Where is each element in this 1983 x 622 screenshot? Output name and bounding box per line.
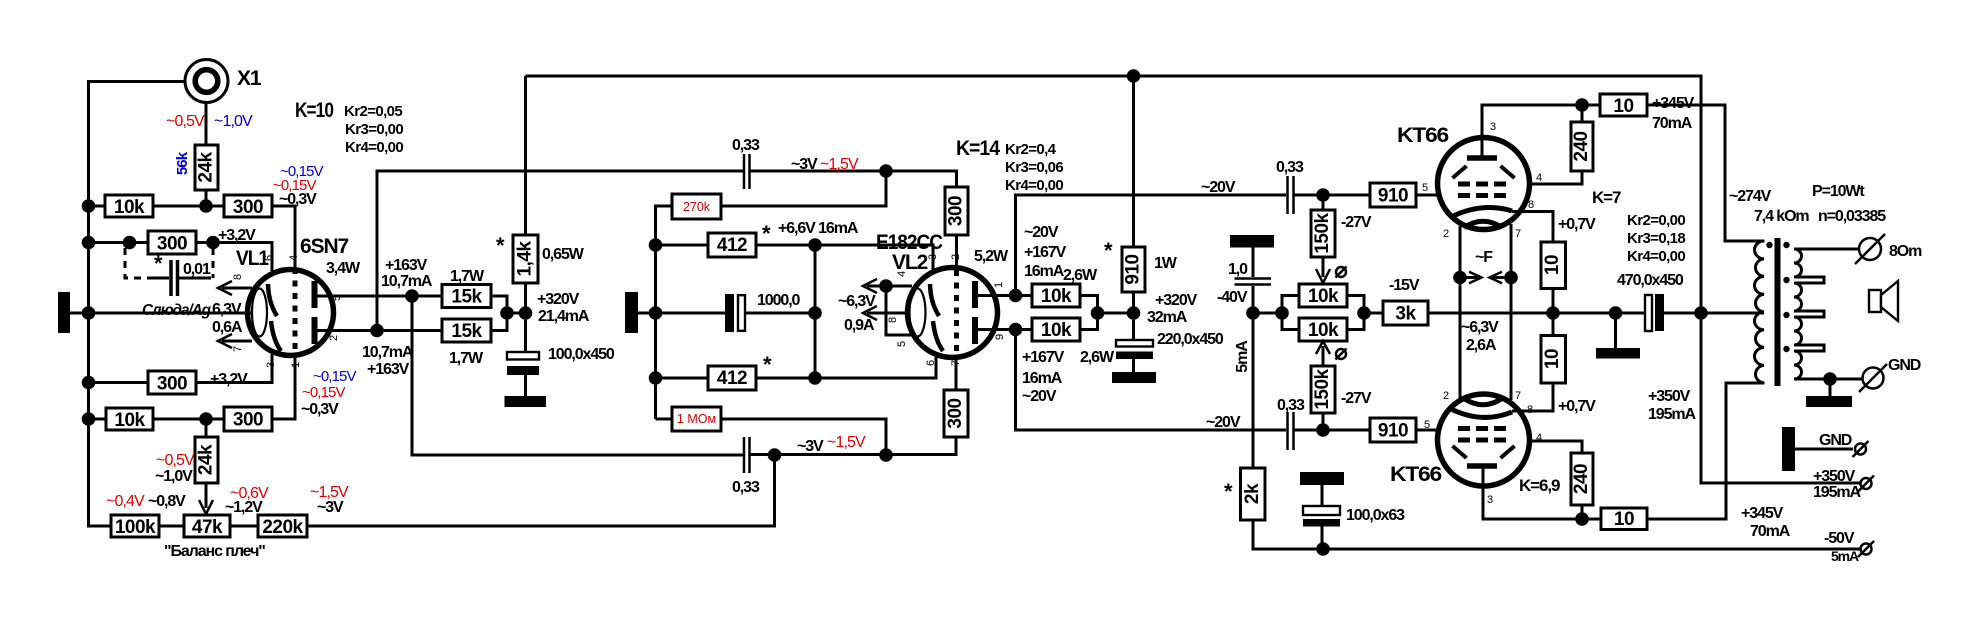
junction heater right <box>1504 271 1518 285</box>
svg-text:Kr2=0,4: Kr2=0,4 <box>1005 141 1057 158</box>
terminal GND chassis <box>1853 441 1869 457</box>
svg-text:+350V: +350V <box>1648 388 1691 405</box>
svg-text:GND: GND <box>1888 357 1921 374</box>
wire KT66l cathode <box>1512 383 1553 411</box>
svg-text:~0,15V: ~0,15V <box>302 384 345 401</box>
svg-text:~0,5V: ~0,5V <box>156 452 195 469</box>
resistor 910 grid lower <box>1370 418 1416 442</box>
junction pot left <box>1275 306 1289 320</box>
svg-text:~0,15V: ~0,15V <box>313 368 356 385</box>
wire gnd to 100,0x63 <box>1321 485 1324 506</box>
svg-text:KT66: KT66 <box>1397 124 1448 147</box>
junction row4 24k tap <box>199 412 213 426</box>
junction 470 cap left <box>1609 306 1623 320</box>
svg-text:5: 5 <box>1422 182 1428 194</box>
junction rail row2 <box>82 236 96 250</box>
svg-text:~0,3V: ~0,3V <box>301 401 339 418</box>
svg-text:1 МОм: 1 МОм <box>677 412 716 426</box>
svg-text:-27V: -27V <box>1341 214 1372 231</box>
svg-text:Kr3=0,00: Kr3=0,00 <box>345 121 403 138</box>
wire 470 cap to primary CT <box>1664 312 1764 315</box>
svg-text:412: 412 <box>717 235 747 256</box>
wire upper drive ~20V <box>1016 195 1287 296</box>
heater arrow pin8 VL1 <box>218 281 252 295</box>
wire pot left rail <box>1282 296 1299 330</box>
capacitor 0,33 top-left <box>744 154 750 189</box>
svg-text:6SN7: 6SN7 <box>300 235 349 258</box>
resistor 300 row1 <box>224 195 272 218</box>
svg-text:0,33: 0,33 <box>732 479 760 496</box>
speaker icon <box>1869 281 1898 321</box>
junction net right top <box>808 238 822 252</box>
connector X1 <box>185 60 228 103</box>
svg-text:5mA: 5mA <box>1234 340 1251 373</box>
svg-text:3: 3 <box>1487 494 1493 506</box>
capacitor 100,0x63 <box>1303 506 1340 527</box>
svg-text:2k: 2k <box>1242 483 1263 504</box>
junction input rail <box>82 306 96 320</box>
svg-text:70mA: 70mA <box>1652 115 1693 132</box>
arrow 24k to 47k pot <box>199 483 213 514</box>
junction cathode node <box>1546 306 1560 320</box>
svg-text:X1: X1 <box>237 67 262 90</box>
capacitor 1000,0 <box>725 294 745 332</box>
svg-text:+167V: +167V <box>1022 349 1065 366</box>
resistor 10k pot lower <box>1299 318 1347 341</box>
svg-text:Kr4=0,00: Kr4=0,00 <box>345 139 403 156</box>
svg-text:~20V: ~20V <box>1022 388 1057 405</box>
wire X1 down to R 24k <box>205 102 208 145</box>
svg-text:-50V: -50V <box>1824 530 1855 547</box>
junction primary CT rail <box>1694 306 1708 320</box>
junction B+ driver node <box>519 306 533 320</box>
wire VL1 plate pin5 <box>317 295 442 298</box>
junction top coupling <box>879 164 893 178</box>
svg-text:7: 7 <box>1515 228 1521 240</box>
svg-text:1,7W: 1,7W <box>450 268 485 285</box>
wire net row mid left <box>656 312 726 315</box>
wire heater left KT66 pair <box>1459 226 1462 398</box>
wire 0,33 to 910 grid lower <box>1295 429 1371 432</box>
wire lower drive ~20V <box>1016 330 1287 431</box>
resistor 47k <box>184 515 230 538</box>
wire net row top left <box>656 244 709 247</box>
svg-text:VL2: VL2 <box>892 251 928 274</box>
junction net right bottom <box>808 371 822 385</box>
resistor 10k anode upper <box>1032 284 1080 307</box>
capacitor 220,0x450 <box>1116 340 1153 359</box>
junction -40V node <box>1246 306 1260 320</box>
junction +320V node <box>1127 306 1141 320</box>
svg-text:6: 6 <box>263 255 275 261</box>
svg-text:~20V: ~20V <box>1024 224 1059 241</box>
svg-text:7: 7 <box>1515 390 1521 402</box>
svg-text:21,4mA: 21,4mA <box>538 308 590 325</box>
junction net left mid <box>649 306 663 320</box>
wire gnd stem secondary <box>1829 379 1832 396</box>
junction 15k join <box>500 306 514 320</box>
svg-text:GND: GND <box>1819 432 1852 449</box>
capacitor 1,0 <box>1235 279 1272 285</box>
resistor 24k (input divider top) <box>195 145 218 190</box>
svg-text:10: 10 <box>1613 96 1633 117</box>
wire row2 left <box>89 241 149 244</box>
junction lower coupling left <box>768 448 782 462</box>
svg-text:~3V: ~3V <box>317 499 344 516</box>
wire 15k join <box>491 296 526 331</box>
wire 270k to left net rail <box>656 206 673 419</box>
svg-text:5mA: 5mA <box>1831 548 1859 564</box>
svg-text:150k: 150k <box>1312 368 1333 409</box>
heater arrow left <box>1460 272 1482 283</box>
top rail +350V <box>526 76 1702 313</box>
wire row1 left <box>89 205 106 208</box>
resistor 15k bottom <box>442 319 491 342</box>
wire 150k upper stem <box>1322 195 1325 210</box>
ground chassis bar <box>1782 427 1795 471</box>
svg-text:910: 910 <box>1123 254 1144 284</box>
svg-text:Kr4=0,00: Kr4=0,00 <box>1005 177 1063 194</box>
svg-text:0,9A: 0,9A <box>844 317 875 334</box>
svg-text:3k: 3k <box>1395 304 1416 325</box>
svg-text:K=6,9: K=6,9 <box>1519 476 1560 495</box>
svg-text:Kr2=0,00: Kr2=0,00 <box>1627 212 1685 229</box>
junction row2 dashed tap left <box>123 236 137 250</box>
wire net row top right to VL2 cathode pin3 <box>756 245 933 270</box>
svg-text:+167V: +167V <box>1024 244 1067 261</box>
resistor 412 top <box>708 233 756 257</box>
svg-text:~0,3V: ~0,3V <box>279 191 317 208</box>
wire cathode node to 470 cap <box>1553 312 1645 315</box>
svg-text:1,4k: 1,4k <box>515 241 536 277</box>
svg-text:100k: 100k <box>115 517 156 538</box>
wire VL1 plate pin2 <box>317 329 377 332</box>
svg-text:0,6A: 0,6A <box>212 319 243 336</box>
svg-text:0,65W: 0,65W <box>542 246 585 263</box>
wire secondary bottom to GND <box>1794 378 1862 381</box>
arrow 150k to 10k pot upper <box>1316 257 1330 283</box>
wire 2k to -50V rail <box>1253 520 1861 549</box>
wire input to VL1 <box>70 312 253 315</box>
svg-text:n=0,03385: n=0,03385 <box>1818 208 1886 225</box>
svg-text:2,6A: 2,6A <box>1466 337 1497 354</box>
resistor 150k upper <box>1311 210 1335 257</box>
junction plate pin1 <box>1009 289 1023 303</box>
wire heater right KT66 pair <box>1510 224 1513 400</box>
wire 150k lower stem <box>1322 413 1325 430</box>
svg-text:+0,7V: +0,7V <box>1558 398 1596 415</box>
svg-text:15k: 15k <box>451 321 482 342</box>
pot symbol lower <box>1336 349 1347 360</box>
svg-text:195mA: 195mA <box>1813 484 1862 501</box>
wire 240 to screen pin4 <box>1532 171 1582 184</box>
resistor 10k row1 <box>105 195 153 218</box>
svg-text:~20V: ~20V <box>1206 414 1241 431</box>
resistor 3k <box>1383 301 1428 325</box>
wire source bar to rail <box>638 312 656 315</box>
svg-text:~0,4V: ~0,4V <box>106 493 145 510</box>
terminal -50V <box>1858 541 1874 557</box>
resistor 15k top <box>442 285 491 308</box>
svg-text:~0,5V: ~0,5V <box>166 113 205 130</box>
junction plate pin9 <box>1009 323 1023 337</box>
wire +345V to primary bottom <box>1647 383 1765 519</box>
svg-text:270k: 270k <box>683 200 711 214</box>
wire row4 to VL1 grid pin1 <box>272 357 295 419</box>
capacitor 0,01 <box>171 260 178 296</box>
svg-text:16mA: 16mA <box>1024 263 1065 280</box>
resistor 910 1W <box>1122 247 1145 292</box>
junction row2 dashed tap right <box>206 236 220 250</box>
junction rail row4 <box>82 412 96 426</box>
svg-text:2: 2 <box>1443 390 1449 402</box>
svg-text:0,33: 0,33 <box>1276 159 1304 176</box>
wire row3 left <box>89 381 149 384</box>
svg-text:K=14: K=14 <box>956 137 1000 160</box>
wire 100k to 47k <box>159 525 184 528</box>
resistor 150k lower <box>1311 366 1335 413</box>
svg-text:+320V: +320V <box>537 291 580 308</box>
svg-text:1000,0: 1000,0 <box>757 292 801 309</box>
svg-text:"Баланс плеч": "Баланс плеч" <box>164 543 265 560</box>
wire 240 lower to screen pin4 <box>1532 441 1582 453</box>
svg-text:9: 9 <box>994 334 1006 340</box>
junction rail row3 <box>82 376 96 390</box>
svg-text:300: 300 <box>157 374 187 395</box>
junction lower coupling right <box>879 448 893 462</box>
svg-text:16mA: 16mA <box>1022 370 1063 387</box>
svg-text:Kr2=0,05: Kr2=0,05 <box>344 103 402 120</box>
svg-text:300: 300 <box>945 398 966 428</box>
svg-text:70mA: 70mA <box>1750 523 1791 540</box>
svg-text:0,01: 0,01 <box>183 261 211 278</box>
wire balance tap down <box>307 455 775 526</box>
tube VL2 E182CC <box>908 268 998 358</box>
svg-text:4: 4 <box>288 255 300 261</box>
svg-text:10,7mA: 10,7mA <box>362 344 414 361</box>
svg-text:2: 2 <box>950 254 962 260</box>
wire row2 to VL1 cathode pin6 <box>196 243 272 272</box>
wire 15k bottom lead <box>377 329 442 332</box>
svg-text:2: 2 <box>328 335 340 341</box>
wire 10k join <box>1080 296 1134 330</box>
svg-text:~1,5V: ~1,5V <box>820 156 859 173</box>
dashed link to capacitor 0,01 <box>125 248 213 278</box>
svg-text:0,33: 0,33 <box>732 137 760 154</box>
wire gnd to 1,0 <box>1252 248 1255 278</box>
wire 47k to 220k <box>230 525 258 528</box>
svg-text:8: 8 <box>887 317 899 323</box>
wire +345V to primary top <box>1647 105 1765 241</box>
wire cap to ground <box>524 375 527 396</box>
svg-text:+3,2V: +3,2V <box>218 227 256 244</box>
resistor 300 VL2 grid bottom <box>944 390 968 437</box>
svg-text:2: 2 <box>1443 228 1449 240</box>
wire 1,4k stem to top rail <box>524 76 527 235</box>
wire pot right rail <box>1347 296 1364 330</box>
svg-text:150k: 150k <box>1312 212 1333 253</box>
resistor 300 VL2 grid top <box>945 187 968 235</box>
resistor 300 row2 <box>148 231 196 255</box>
junction plate bottom tap <box>370 324 384 338</box>
svg-text:56k: 56k <box>174 151 191 175</box>
svg-text:47k: 47k <box>192 517 223 538</box>
resistor 240 lower <box>1571 453 1593 505</box>
svg-text:7: 7 <box>950 360 962 366</box>
svg-text:~6,3V: ~6,3V <box>838 293 876 310</box>
wire lower coupling to VL2 grid pin7 <box>751 437 957 455</box>
svg-text:470,0x450: 470,0x450 <box>1617 272 1684 289</box>
svg-text:~3V: ~3V <box>791 156 818 173</box>
resistor 10 cathode lower <box>1541 336 1566 384</box>
wire X1 left to input rail <box>89 82 186 527</box>
wire lower plate up to top coupling <box>377 171 743 331</box>
svg-text:10: 10 <box>1542 255 1563 275</box>
wire to 0,01 plates <box>150 277 206 280</box>
transformer core <box>1775 238 1781 386</box>
svg-text:10k: 10k <box>1308 286 1339 307</box>
svg-text:2,6W: 2,6W <box>1080 349 1115 366</box>
resistor 220k <box>258 515 307 538</box>
svg-text:~1,0V: ~1,0V <box>155 468 193 485</box>
wire row4 left <box>89 418 107 421</box>
svg-text:P=10Wt: P=10Wt <box>1812 183 1865 200</box>
svg-text:10: 10 <box>1614 509 1634 530</box>
resistor 10 anode upper <box>1600 94 1647 117</box>
svg-text:~1,5V: ~1,5V <box>827 434 866 451</box>
wire net row mid right <box>746 312 815 315</box>
wire -40V to pot rail <box>1253 312 1282 315</box>
resistor 412 bottom <box>708 366 756 390</box>
wire 300 to VL2 pin2 <box>955 235 958 270</box>
junction top rail 910 <box>1127 69 1141 83</box>
wire 1,4k to node <box>524 283 527 313</box>
svg-text:3,4W: 3,4W <box>326 260 361 277</box>
wire 100,0x63 to -50V rail <box>1321 527 1324 550</box>
wire 910 to KT66 lower pin5 <box>1416 429 1437 432</box>
svg-text:~1,0V: ~1,0V <box>214 113 253 130</box>
svg-text:2,6W: 2,6W <box>1063 267 1098 284</box>
svg-text:+163V: +163V <box>367 361 410 378</box>
terminal +350V <box>1858 476 1874 492</box>
svg-text:220k: 220k <box>262 517 303 538</box>
svg-text:24k: 24k <box>196 151 217 182</box>
svg-text:412: 412 <box>717 368 747 389</box>
svg-text:+345V: +345V <box>1741 505 1784 522</box>
svg-text:10k: 10k <box>114 197 145 218</box>
svg-text:300: 300 <box>233 410 263 431</box>
wire 3k to cathode node <box>1428 312 1553 315</box>
wire 1MOm to left rail <box>656 418 673 421</box>
tube KT66 lower <box>1438 394 1530 486</box>
wire row1 to VL1 grid pin4 <box>272 206 295 268</box>
svg-text:+163V: +163V <box>385 257 428 274</box>
wire net row bottom left <box>656 377 709 380</box>
tube KT66 upper <box>1438 138 1530 230</box>
heater arrow VL2 pin9 <box>863 306 910 320</box>
svg-text:~20V: ~20V <box>1201 179 1236 196</box>
svg-text:10: 10 <box>1542 349 1563 369</box>
capacitor 100,0x63 ground bar <box>1300 472 1344 485</box>
tube VL1 6SN7 <box>248 268 334 357</box>
resistor 100k <box>111 515 159 538</box>
svg-text:15k: 15k <box>451 287 482 308</box>
svg-text:7,4 kOm: 7,4 kOm <box>1754 208 1809 225</box>
wire pot to 3k <box>1364 312 1383 315</box>
resistor 2k <box>1241 468 1266 520</box>
svg-text:100,0x63: 100,0x63 <box>1346 507 1405 524</box>
svg-text:24k: 24k <box>196 444 217 475</box>
transformer secondary phase dots <box>1783 242 1789 352</box>
capacitor 0,33 bottom-left <box>744 437 750 473</box>
svg-text:KT66: KT66 <box>1390 463 1441 486</box>
svg-text:10k: 10k <box>114 410 145 431</box>
svg-text:1,0: 1,0 <box>1228 261 1248 278</box>
ground driver <box>505 396 547 407</box>
wire 240 lower to anode node <box>1581 505 1584 519</box>
svg-text:4: 4 <box>1536 172 1542 184</box>
wire chassis gnd to terminal <box>1795 448 1853 451</box>
svg-text:-40V: -40V <box>1217 289 1248 306</box>
svg-text:8: 8 <box>232 274 244 280</box>
wire plate top tap down to lower coupling <box>412 296 743 455</box>
svg-text:300: 300 <box>946 196 967 226</box>
resistor 300 row3 <box>148 371 196 395</box>
svg-text:910: 910 <box>1378 186 1408 207</box>
svg-text:32mA: 32mA <box>1147 309 1188 326</box>
wire VL2 plate pin1 <box>977 294 1032 297</box>
ground secondary <box>1806 396 1852 407</box>
resistor 10k row4 <box>106 408 153 431</box>
wire 220 cap to ground <box>1132 359 1135 372</box>
wire KT66l anode to +345V <box>1483 468 1601 519</box>
junction secondary gnd <box>1823 372 1837 386</box>
svg-text:-15V: -15V <box>1389 277 1420 294</box>
svg-text:~274V: ~274V <box>1729 188 1772 205</box>
svg-text:0,33: 0,33 <box>1277 397 1305 414</box>
svg-text:+0,7V: +0,7V <box>1558 216 1596 233</box>
svg-text:~F: ~F <box>1475 249 1493 266</box>
resistor 10 anode lower <box>1601 508 1647 530</box>
svg-text:4: 4 <box>896 271 908 277</box>
junction upper grid <box>1316 188 1330 202</box>
junction rail row1 <box>82 199 96 213</box>
capacitor 1,0 ground bar <box>1230 235 1274 248</box>
signal source bar mid <box>625 292 638 333</box>
resistor 24k lower <box>195 437 218 483</box>
capacitor 0,33 grid lower KT66 <box>1288 412 1294 450</box>
svg-text:10k: 10k <box>1308 320 1339 341</box>
resistor 1,4k <box>513 235 538 283</box>
svg-text:220,0x450: 220,0x450 <box>1157 331 1224 348</box>
pot symbol upper <box>1336 267 1347 278</box>
capacitor 470,0x450 <box>1645 294 1664 331</box>
arrow 150k to 10k pot lower <box>1316 341 1330 366</box>
wire row3 to VL1 cathode pin3 <box>196 354 272 383</box>
heater arrow pin7 VL1 <box>218 334 252 348</box>
wire 470 gnd stem <box>1614 313 1617 348</box>
svg-text:5: 5 <box>1424 419 1430 431</box>
wire cathode join <box>1552 289 1555 336</box>
wire VL2 heater pins 4-5 <box>886 286 912 335</box>
wire 1MOm riser <box>721 419 886 455</box>
transformer primary phase dot <box>1766 242 1772 248</box>
svg-text:K=7: K=7 <box>1592 188 1621 207</box>
junction net left bottom <box>649 371 663 385</box>
junction heater left <box>1453 271 1467 285</box>
terminal 8Om <box>1855 234 1885 264</box>
svg-text:1,7W: 1,7W <box>449 350 484 367</box>
